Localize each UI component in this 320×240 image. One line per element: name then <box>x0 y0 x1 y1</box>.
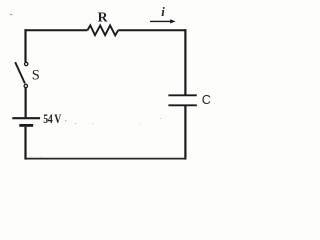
scan speck right of 54 V <box>65 120 66 121</box>
svg-text:R: R <box>98 10 109 25</box>
wire left vertical upper segment <box>24 29 26 62</box>
switch S top terminal circle <box>25 62 28 65</box>
svg-text:C: C <box>202 93 211 107</box>
wire left vertical lower segment <box>24 127 26 160</box>
scan speck right of battery row <box>92 123 93 124</box>
current arrow i <box>150 20 172 22</box>
scan speck lower right area <box>160 118 161 119</box>
scan specks above bottom wire <box>31 156 32 157</box>
svg-text:S: S <box>32 68 40 84</box>
capacitor C bottom plate <box>168 104 196 106</box>
svg-text:i: i <box>161 5 165 19</box>
wire bottom horizontal segment <box>25 158 187 160</box>
wire left vertical middle segment <box>25 88 27 117</box>
wire top-right horizontal segment <box>118 29 186 31</box>
battery B1 negative short plate <box>19 124 33 127</box>
wire top-left horizontal segment <box>25 29 88 31</box>
switch S bottom terminal circle <box>24 84 27 87</box>
scan speck near top-left edge <box>10 14 12 16</box>
switch S blade <box>15 62 25 83</box>
capacitor C top plate <box>168 94 196 96</box>
wire right vertical upper segment <box>184 29 186 95</box>
wire right vertical lower segment <box>184 106 186 160</box>
resistor R1 zigzag body <box>87 25 118 35</box>
scan speck below 54 V <box>75 123 76 124</box>
battery B1 positive long plate <box>12 117 40 119</box>
svg-text:54 V: 54 V <box>43 113 61 126</box>
